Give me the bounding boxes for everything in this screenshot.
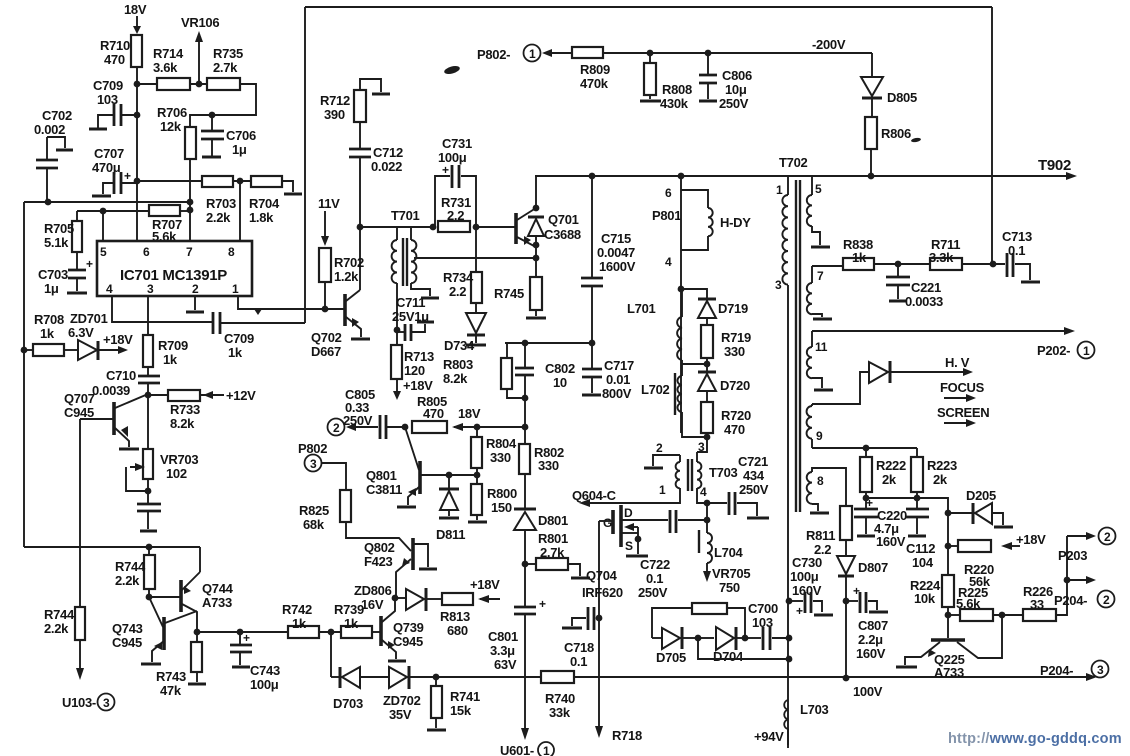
svg-text:Q743: Q743 [112,621,143,636]
svg-text:12k: 12k [160,119,182,134]
svg-text:8.2k: 8.2k [443,371,468,386]
svg-text:FOCUS: FOCUS [940,380,985,395]
svg-text:C731: C731 [442,136,472,151]
svg-text:1.2k: 1.2k [334,269,359,284]
svg-text:1k: 1k [292,616,307,631]
node P203 arrow [1058,528,1116,564]
svg-text:6.3V: 6.3V [68,325,94,340]
svg-text:U601-: U601- [500,743,534,756]
svg-text:D805: D805 [887,90,917,105]
node junction [704,500,711,507]
resistor R703 [202,176,236,225]
resistor R713 [391,332,434,400]
svg-text:R710: R710 [100,38,130,53]
svg-text:C802: C802 [545,361,575,376]
diode D205 [945,488,1013,527]
svg-text:10μ: 10μ [725,82,747,97]
node P202-1 [1037,342,1095,359]
resistor R803 [443,343,524,398]
svg-text:3: 3 [310,457,317,471]
resistor R739 [334,602,380,638]
node junction [134,112,141,119]
node junction [786,635,793,642]
svg-text:2: 2 [656,441,663,455]
wire y227 [360,226,433,228]
svg-text:ZD701: ZD701 [70,311,108,326]
svg-text:+18V: +18V [1016,532,1046,547]
node junction [990,261,997,268]
svg-text:0.0039: 0.0039 [92,383,130,398]
transistor Q707 [64,391,148,449]
svg-text:330: 330 [724,344,745,359]
svg-text:800V: 800V [602,386,632,401]
resistor R719 [701,325,751,364]
svg-text:S: S [625,539,633,553]
svg-text:160V: 160V [792,583,822,598]
node junction [742,635,749,642]
svg-text:8: 8 [228,245,235,259]
svg-text:2k: 2k [882,472,897,487]
transformer T701 [391,208,439,330]
wire bus main [436,676,1088,678]
svg-text:5: 5 [100,245,107,259]
resistor R706 [157,105,196,241]
wire y258 [414,257,536,259]
wire y202 [24,201,190,203]
svg-text:470: 470 [423,406,444,421]
svg-text:C3811: C3811 [366,482,402,497]
diode D703 [333,667,389,711]
capacitor C715 [581,176,636,343]
svg-text:P204-: P204- [1040,663,1073,678]
svg-text:1k: 1k [344,616,359,631]
resistor R731 [438,195,515,232]
svg-text:2.2k: 2.2k [115,573,140,588]
resistor R704 [233,176,302,225]
svg-text:R741: R741 [450,689,480,704]
capacitor C806 [699,50,752,111]
resistor R808 [640,50,692,111]
wire pin2 ground [186,296,204,312]
svg-text:1: 1 [232,282,239,296]
svg-text:680: 680 [447,623,468,638]
svg-text:Q702: Q702 [311,330,342,345]
resistor R714 [137,46,207,90]
node junction [45,199,52,206]
resistor R744 upper [115,547,155,597]
svg-text:C715: C715 [601,231,631,246]
svg-text:R739: R739 [334,602,364,617]
diode D705 [652,627,698,665]
diode D720 [698,364,750,402]
svg-text:63V: 63V [494,657,517,672]
node junction [474,424,481,431]
svg-text:5: 5 [815,182,822,196]
node junction [863,445,870,452]
svg-text:ZD806: ZD806 [354,583,392,598]
node junction [868,173,875,180]
svg-text:3: 3 [147,282,154,296]
node junction [704,517,711,524]
resistor R745 [494,258,546,318]
wire y176 main [535,175,1068,177]
wire R838 row y266 [812,265,843,267]
svg-text:1k: 1k [852,250,867,265]
resistor R800 [468,475,517,522]
node P204-3 [1040,661,1109,679]
svg-text:U103-: U103- [62,695,96,710]
capacitor C731 [435,136,476,227]
svg-text:1: 1 [529,47,536,61]
svg-text:750: 750 [719,580,740,595]
diode D704 [698,627,745,664]
svg-text:2: 2 [1104,530,1111,544]
resistor R222 [860,448,906,498]
node 18V supply [124,2,147,34]
node junction [843,675,850,682]
node U601-1 [500,742,554,756]
node junction [237,178,244,185]
transformer T702 winding 9 [807,404,823,448]
svg-text:7: 7 [817,269,824,283]
node junction [999,612,1006,619]
svg-text:R706: R706 [157,105,187,120]
resistor R806 [865,117,911,176]
svg-text:+18V: +18V [403,378,433,393]
resistor R702 [319,248,364,309]
resistor R735 [207,46,256,115]
svg-text:R222: R222 [876,458,906,473]
svg-text:A733: A733 [934,665,964,680]
svg-text:2.2: 2.2 [449,284,466,299]
inductor L704 [699,520,744,582]
resistor R223 [911,448,957,498]
svg-text:2.2: 2.2 [447,208,464,223]
variable resistor VR703 [126,430,198,494]
wire left rail [23,202,25,547]
node junction [786,656,793,663]
svg-text:0.1: 0.1 [1008,243,1025,258]
resistor R705 [44,211,82,252]
svg-text:-200V: -200V [812,37,846,52]
svg-text:1k: 1k [163,352,178,367]
resistor R801 [522,531,590,578]
svg-text:R720: R720 [721,408,751,423]
svg-text:VR703: VR703 [160,452,198,467]
svg-text:3: 3 [775,278,782,292]
svg-text:C709: C709 [224,331,254,346]
svg-text:0.0047: 0.0047 [597,245,635,260]
wire pin8 column [239,181,241,241]
svg-text:11V: 11V [318,196,340,211]
svg-text:P801: P801 [652,208,681,223]
svg-text:D811: D811 [436,527,465,542]
svg-text:16V: 16V [361,597,384,612]
capacitor C717 [582,343,634,401]
svg-text:R702: R702 [334,255,364,270]
svg-text:330: 330 [538,458,559,473]
wire y632 [197,631,288,633]
node P802-2 [328,419,379,436]
svg-text:0.002: 0.002 [34,122,65,137]
node junction [145,392,152,399]
svg-text:2: 2 [192,282,199,296]
capacitor C718 [562,607,602,669]
svg-text:R713: R713 [404,349,434,364]
svg-text:D807: D807 [858,560,888,575]
svg-text:33k: 33k [549,705,571,720]
resistor R734 [443,227,482,313]
svg-text:T701: T701 [391,208,420,223]
svg-text:434: 434 [743,468,765,483]
svg-text:R744: R744 [44,607,75,622]
capacitor C702 [34,108,73,202]
node junction [134,178,141,185]
svg-text:R704: R704 [249,196,280,211]
ink blob artifact [911,137,922,143]
svg-text:470: 470 [724,422,745,437]
svg-text:11: 11 [815,340,828,354]
capacitor C707 [92,146,137,196]
inductor L701 [627,289,707,364]
svg-text:2.2k: 2.2k [44,621,69,636]
capacitor C730 [789,555,833,618]
diode HV rectifier [812,361,973,404]
capacitor C700 [745,601,789,650]
svg-text:120: 120 [404,363,425,378]
svg-text:http://www.go-gddq.com: http://www.go-gddq.com [948,731,1122,747]
resistor R224 [910,513,954,615]
svg-text:3.6k: 3.6k [153,60,178,75]
svg-text:Q701: Q701 [548,212,579,227]
svg-text:1: 1 [776,183,783,197]
node 11V [318,196,340,246]
svg-text:1.8k: 1.8k [249,210,274,225]
svg-text:D719: D719 [718,301,748,316]
svg-text:C221: C221 [911,280,941,295]
wire Q707 base column [79,419,81,607]
wire to R802 column [477,426,525,428]
svg-text:SCREEN: SCREEN [937,405,989,420]
svg-text:+18V: +18V [103,332,133,347]
node pin5 tap [100,208,107,215]
node junction [474,472,481,479]
resistor R707 [77,205,193,244]
svg-text:68k: 68k [303,517,325,532]
svg-text:+94V: +94V [754,729,784,744]
capacitor C706 [201,115,256,157]
svg-text:10: 10 [553,375,567,390]
svg-text:G: G [603,516,612,530]
svg-text:3.3k: 3.3k [929,250,954,265]
transistor Q744 [149,547,234,632]
svg-text:R718: R718 [612,728,642,743]
svg-text:C722: C722 [640,557,670,572]
svg-text:R735: R735 [213,46,243,61]
node junction [863,495,870,502]
node Q604-C [572,488,653,507]
svg-text:T902: T902 [1038,157,1071,174]
svg-text:2: 2 [333,421,340,435]
svg-text:C712: C712 [373,145,403,160]
svg-text:R801: R801 [538,531,568,546]
svg-text:100V: 100V [853,684,883,699]
diode ZD701 [21,311,134,360]
svg-text:C710: C710 [106,368,136,383]
svg-text:C717: C717 [604,358,634,373]
svg-text:8: 8 [817,474,824,488]
node junction [533,255,540,262]
connector P801 [652,176,681,433]
diode D811 [436,472,465,542]
wire pin4 down [706,503,708,520]
svg-text:35V: 35V [389,707,412,722]
svg-text:0.1: 0.1 [646,571,663,586]
wire y343 [505,342,592,344]
svg-text:470μ: 470μ [92,160,121,175]
svg-text:6: 6 [143,245,150,259]
svg-text:5.1k: 5.1k [44,235,69,250]
capacitor C721 [707,454,769,518]
wire y498 [866,498,948,513]
svg-text:250V: 250V [638,585,668,600]
svg-text:L703: L703 [800,702,829,717]
transistor Q702 [311,290,370,359]
svg-text:250V: 250V [343,413,373,428]
wire pin1 to Q702 base [238,296,344,315]
op-amp IC701 MC1391P [97,241,252,296]
svg-text:R806: R806 [881,126,911,141]
svg-text:R719: R719 [721,330,751,345]
capacitor C221 [886,264,943,309]
svg-text:0.0033: 0.0033 [905,294,943,309]
wire right border [991,7,993,263]
svg-text:2.7k: 2.7k [540,545,565,560]
svg-text:R745: R745 [494,286,524,301]
resistor R743 [156,632,206,698]
svg-text:H-DY: H-DY [720,215,751,230]
svg-text:3.3μ: 3.3μ [490,643,515,658]
svg-text:1: 1 [659,483,666,497]
wire D807 to bus [845,601,847,678]
svg-text:4: 4 [665,255,672,269]
svg-text:R743: R743 [156,669,186,684]
svg-text:0.1: 0.1 [570,654,587,669]
svg-text:VR705: VR705 [712,566,750,581]
svg-text:R813: R813 [440,609,470,624]
svg-text:0.01: 0.01 [606,372,630,387]
node P802-1 [477,45,572,63]
svg-text:1: 1 [543,744,550,756]
capacitor C713 [1002,229,1040,282]
transistor Q743 [112,597,197,664]
resistor R220 [945,532,1047,589]
transformer T702 core [779,155,808,512]
svg-text:C721: C721 [738,454,768,469]
capacitor C802 [515,340,575,444]
wire y547 [24,546,200,548]
capacitor C710 [92,367,160,430]
svg-text:160V: 160V [876,534,906,549]
wire D703 branch [330,632,332,677]
resistor R711 [929,237,1005,270]
resistor R225 [948,585,1023,621]
transistor Q704 mosfet [582,505,668,600]
capacitor C743 [230,629,280,692]
svg-text:+18V: +18V [470,577,500,592]
svg-text:C718: C718 [564,640,594,655]
diode ZD806 [354,583,442,612]
svg-text:C807: C807 [858,618,888,633]
node junction [134,81,141,88]
svg-text:15k: 15k [450,703,472,718]
resistor R838 [843,237,930,270]
node junction [678,286,685,293]
svg-text:33: 33 [1030,597,1044,612]
svg-text:T702: T702 [779,155,808,170]
svg-text:C713: C713 [1002,229,1032,244]
svg-text:+: + [442,163,449,177]
svg-text:R712: R712 [320,93,350,108]
capacitor C220 [854,496,907,549]
svg-text:102: 102 [166,466,187,481]
capacitor C801 [488,564,546,740]
wire R718 column [595,521,642,743]
node junction [704,361,711,368]
resistor R742 [282,602,341,638]
svg-text:R708: R708 [34,312,64,327]
capacitor C709 103 [89,78,137,129]
svg-text:R808: R808 [662,82,692,97]
svg-text:100μ: 100μ [790,569,819,584]
svg-text:+: + [796,604,803,618]
svg-text:Q704: Q704 [586,568,618,583]
svg-text:C945: C945 [64,405,94,420]
svg-text:1600V: 1600V [599,259,636,274]
resistor R802 [519,444,564,509]
svg-text:4: 4 [106,282,113,296]
svg-text:9: 9 [816,429,823,443]
transformer T702 winding 5 [807,176,830,247]
capacitor C711 [392,295,434,341]
svg-text:D705: D705 [656,650,686,665]
svg-text:R809: R809 [580,62,610,77]
svg-text:IRF620: IRF620 [582,585,623,600]
wire top border [305,6,992,8]
svg-text:8.2k: 8.2k [170,416,195,431]
svg-text:C709: C709 [93,78,123,93]
svg-text:1k: 1k [228,345,243,360]
node junction [678,173,685,180]
inductor H-DY [681,190,751,250]
svg-text:R744: R744 [115,559,146,574]
svg-text:ZD702: ZD702 [383,693,421,708]
svg-text:390: 390 [324,107,345,122]
svg-text:330: 330 [490,450,511,465]
resistor R720 [701,402,751,437]
svg-text:VR106: VR106 [181,15,219,30]
svg-text:D205: D205 [966,488,996,503]
wire y181 [137,180,202,182]
diode D719 [681,289,748,325]
wire P202 row y331 [812,327,1075,335]
svg-text:D734: D734 [444,338,475,353]
transformer T702 winding 7 [807,266,832,319]
svg-text:P802-: P802- [477,47,510,62]
svg-text:250V: 250V [719,96,749,111]
transistor Q225 [896,615,1002,680]
svg-text:C806: C806 [722,68,752,83]
